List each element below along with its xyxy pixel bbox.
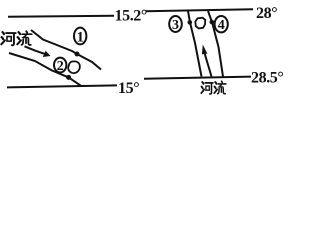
point label 3 [169, 16, 182, 32]
river bank (upper) [31, 30, 101, 70]
svg-text:4: 4 [218, 18, 225, 33]
svg-text:1: 1 [76, 30, 84, 46]
svg-text:28°: 28° [256, 5, 277, 22]
latitude line 15.2° [8, 16, 114, 17]
latitude line 28° [146, 9, 254, 11]
island (right river) [195, 18, 205, 29]
label 河流 (right) [201, 82, 213, 94]
svg-text:15°: 15° [118, 80, 139, 97]
point label 4 [215, 16, 228, 32]
node dot on east bank [210, 20, 215, 25]
river bank (lower) [9, 53, 81, 86]
flow arrow (northward) [205, 54, 212, 77]
latitude line 28.5° [144, 77, 251, 79]
svg-text:15.2°: 15.2° [115, 8, 147, 25]
label 河流 (left) [1, 32, 15, 45]
node dot on west bank [188, 20, 193, 25]
river bank (west) [188, 11, 202, 77]
island (left river) [68, 61, 80, 73]
flow arrow [25, 46, 45, 54]
node dot on lower bank [66, 75, 71, 80]
latitude line 15° [7, 85, 117, 87]
point label 1 [74, 28, 86, 45]
point label 2 [54, 58, 66, 73]
svg-text:2: 2 [57, 59, 64, 74]
node dot on upper bank [75, 52, 80, 57]
svg-text:3: 3 [172, 18, 179, 33]
svg-text:28.5°: 28.5° [251, 70, 283, 87]
river bank (east) [208, 11, 223, 77]
